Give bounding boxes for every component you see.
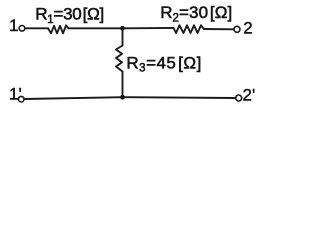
wire R3 to node B: [122, 72, 124, 98]
svg-text:2: 2: [243, 19, 252, 38]
wire R1 to node A: [69, 27, 123, 29]
wire node B to terminal 2': [123, 96, 236, 99]
terminal 1: [19, 26, 25, 32]
resistor R3: [116, 46, 123, 72]
svg-text:1': 1': [9, 85, 22, 104]
resistor R1: [48, 25, 69, 33]
svg-text:R3=45[Ω]: R3=45[Ω]: [126, 53, 201, 74]
wire R2 to terminal 2: [204, 28, 234, 30]
terminal 1': [18, 96, 24, 102]
svg-text:1: 1: [9, 16, 18, 35]
terminal 2': [236, 95, 242, 101]
svg-text:R2=30[Ω]: R2=30[Ω]: [160, 3, 232, 24]
wire terminal1 to R1: [25, 27, 48, 29]
node B junction dot: [120, 95, 125, 100]
wire node A down to R3: [122, 28, 124, 45]
node A junction dot: [120, 26, 125, 31]
svg-text:R1=30[Ω]: R1=30[Ω]: [35, 5, 104, 26]
terminal 2: [234, 26, 240, 32]
wire node A to R2: [123, 27, 174, 29]
resistor R2: [174, 25, 205, 33]
svg-text:2': 2': [243, 86, 256, 105]
wire terminal 1' to node B: [24, 97, 122, 99]
